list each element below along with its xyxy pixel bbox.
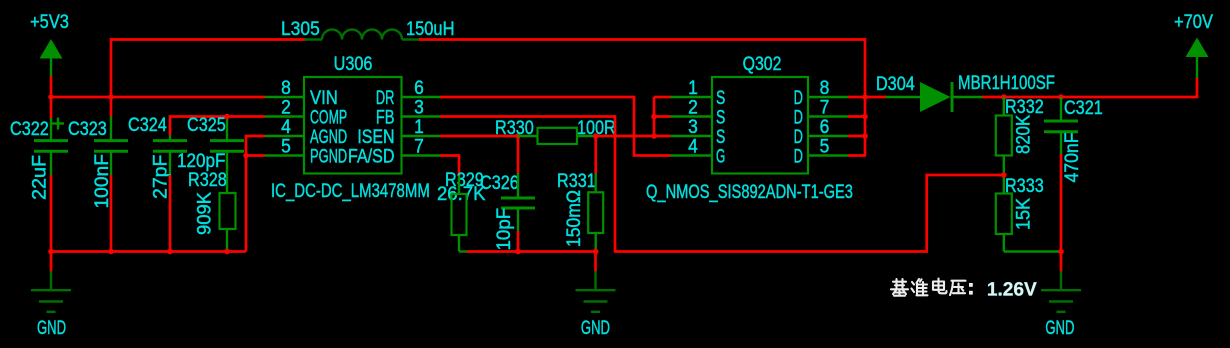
wire +5V3 stem — [50, 76, 53, 97]
wire AGND net — [246, 136, 265, 252]
wire C323 bottom — [110, 175, 113, 252]
pin 5 D — [794, 135, 849, 167]
wire COMP net — [170, 117, 265, 136]
svg-text:D: D — [794, 146, 803, 167]
svg-text:27pF: 27pF — [150, 154, 172, 199]
svg-text:C322: C322 — [10, 118, 49, 140]
pin 4 AGND — [265, 115, 347, 147]
junction ground stem left — [48, 249, 54, 255]
wire ground stem middle — [594, 252, 597, 272]
svg-text:MBR1H100SF: MBR1H100SF — [958, 71, 1055, 93]
fullwidth colon — [969, 283, 973, 295]
capacitor C326 — [480, 172, 535, 232]
svg-text:150mΩ: 150mΩ — [562, 190, 584, 247]
wire S2 stub — [654, 115, 671, 118]
pin 2 S — [671, 96, 726, 128]
pin 2 COMP — [265, 96, 347, 129]
pin 1 S — [671, 76, 726, 108]
resistor R329 — [437, 169, 486, 252]
svg-text:FA/SD: FA/SD — [348, 145, 394, 167]
wire source tie — [653, 97, 656, 136]
capacitor C324 — [128, 114, 187, 176]
pin 4 G — [671, 135, 726, 168]
svg-text:15K: 15K — [1012, 197, 1034, 230]
wire L305 riser — [111, 40, 306, 98]
junction +5V3 rail — [48, 94, 54, 100]
svg-text:4: 4 — [688, 135, 698, 157]
junction FB divider — [1001, 172, 1007, 178]
capacitor C325 — [187, 114, 244, 193]
wire C323 top — [110, 97, 113, 117]
svg-text:D: D — [794, 88, 803, 109]
hanzi YA — [950, 281, 966, 295]
svg-text:150uH: 150uH — [406, 18, 454, 39]
svg-text:L305: L305 — [281, 17, 320, 39]
svg-text:D304: D304 — [876, 73, 915, 95]
junction C324 bottom rail — [167, 249, 173, 255]
wire top rail — [419, 40, 865, 156]
wire DR to gate — [440, 97, 671, 156]
svg-text:ISEN: ISEN — [357, 126, 394, 148]
svg-text:DR: DR — [376, 88, 395, 109]
wire C326 bottom — [517, 231, 520, 252]
svg-text:AGND: AGND — [310, 127, 347, 148]
wire S3 stub — [654, 135, 671, 138]
junction C325 top — [224, 114, 230, 120]
wire ISEN net left — [440, 135, 518, 138]
svg-text:5: 5 — [820, 135, 830, 157]
wire C324 bottom — [169, 175, 172, 252]
power flag +70V — [1174, 11, 1213, 78]
svg-text:D: D — [794, 107, 803, 128]
svg-text:820K: 820K — [1012, 115, 1033, 154]
wire +70V rail — [983, 77, 1198, 97]
svg-text:C324: C324 — [128, 114, 167, 136]
wire FB net — [440, 117, 1004, 252]
resistor R332 — [996, 96, 1044, 194]
pin 7 FA/SD — [348, 135, 441, 167]
pin 8 VIN — [265, 76, 338, 108]
wire FA/SD to R329 — [440, 156, 459, 177]
junction R331 bottom — [593, 249, 599, 255]
svg-text:C323: C323 — [68, 118, 107, 140]
junction S3 — [651, 133, 657, 139]
svg-text:S: S — [716, 126, 725, 148]
svg-text:C321: C321 — [1064, 97, 1103, 119]
svg-text:U306: U306 — [334, 53, 373, 75]
svg-text:GND: GND — [1045, 318, 1074, 339]
svg-text:Q_NMOS_SIS892ADN-T1-GE3: Q_NMOS_SIS892ADN-T1-GE3 — [646, 181, 853, 202]
svg-text:22uF: 22uF — [29, 155, 51, 200]
wire C326 top — [517, 136, 520, 174]
svg-text:1.26V: 1.26V — [987, 279, 1037, 300]
ground GND right — [1041, 271, 1081, 339]
IC U306 LM3478 — [271, 53, 430, 202]
wire D5 stub — [848, 154, 866, 157]
svg-text:COMP: COMP — [310, 107, 347, 128]
junction D8 — [862, 94, 868, 100]
svg-text:5: 5 — [281, 135, 291, 157]
svg-text:IC_DC-DC_LM3478MM: IC_DC-DC_LM3478MM — [271, 179, 430, 201]
wire VIN rail — [51, 96, 265, 99]
junction L305 tap — [108, 94, 114, 100]
junction C326 bottom — [515, 249, 521, 255]
ground GND middle — [576, 271, 616, 339]
pin 3 S — [671, 115, 726, 147]
resistor R330 — [495, 117, 616, 144]
wire C321 bottom — [1060, 154, 1063, 252]
wire D8 to diode — [848, 96, 887, 99]
wire R331 top — [594, 136, 597, 174]
wire ground rail middle — [467, 250, 597, 253]
junction R332 top — [1001, 94, 1007, 100]
svg-text:GND: GND — [37, 318, 66, 339]
pin 8 D — [794, 76, 849, 108]
wire D7 stub — [848, 115, 866, 118]
svg-text:C326: C326 — [480, 172, 519, 194]
svg-text:G: G — [716, 147, 725, 167]
svg-text:7: 7 — [414, 135, 424, 157]
inductor L305 — [281, 17, 454, 39]
resistor R328 — [188, 169, 236, 252]
pin 6 DR — [376, 76, 441, 108]
hanzi ZHUN — [912, 279, 928, 296]
svg-text:Q302: Q302 — [743, 53, 782, 75]
svg-text:R331: R331 — [557, 170, 596, 192]
diode D304 — [876, 71, 1055, 112]
junction C321 top — [1058, 94, 1064, 100]
wire D6 stub — [848, 135, 866, 138]
svg-text:909K: 909K — [193, 192, 214, 235]
svg-text:PGND: PGND — [310, 146, 347, 167]
junction D6 — [862, 133, 868, 139]
wire ISEN net right — [596, 135, 654, 138]
svg-text:R328: R328 — [188, 169, 227, 191]
junction ground right — [1058, 249, 1064, 255]
pin 7 D — [794, 96, 849, 128]
capacitor C322 — [10, 117, 68, 176]
hanzi DIAN — [933, 279, 947, 294]
pin 5 PGND — [265, 135, 347, 167]
svg-text:S: S — [716, 87, 725, 109]
power flag +5V3 — [30, 11, 69, 77]
junction C326 top — [515, 133, 521, 139]
svg-text:+70V: +70V — [1174, 11, 1213, 32]
resistor R331 — [557, 170, 603, 252]
wire ground stem right — [1060, 252, 1063, 272]
junction C323 bottom rail — [108, 249, 114, 255]
capacitor C321 — [1044, 97, 1103, 155]
junction R328 bottom — [224, 249, 230, 255]
junction D7 — [862, 114, 868, 120]
wire ground stem left — [50, 252, 53, 272]
junction AGND/PGND — [243, 153, 249, 159]
svg-text:VIN: VIN — [310, 87, 338, 108]
svg-text:C325: C325 — [187, 114, 226, 136]
capacitor C323 — [68, 116, 128, 176]
svg-text:470nF: 470nF — [1060, 133, 1082, 183]
svg-text:R332: R332 — [1005, 96, 1044, 118]
wire ground rail left — [51, 250, 246, 253]
pin 3 FB — [376, 96, 441, 128]
svg-text:D: D — [794, 127, 803, 148]
svg-text:GND: GND — [581, 318, 610, 339]
hanzi JI — [891, 279, 908, 296]
wire S1 stub — [654, 96, 671, 99]
wire C322 bottom — [50, 175, 53, 252]
wire PGND stub — [246, 154, 265, 157]
junction R330 right — [593, 133, 599, 139]
wire C322 top — [50, 97, 53, 118]
transistor Q302 — [646, 53, 853, 203]
ground GND left — [31, 271, 71, 339]
pin 1 ISEN — [357, 115, 441, 147]
svg-text:+5V3: +5V3 — [30, 11, 69, 32]
svg-text:S: S — [716, 106, 725, 128]
junction S2 — [651, 114, 657, 120]
pin 6 D — [794, 115, 849, 147]
note reference voltage 1.26V — [891, 279, 1037, 301]
resistor R333 — [996, 175, 1060, 252]
svg-text:10pF: 10pF — [494, 208, 515, 251]
